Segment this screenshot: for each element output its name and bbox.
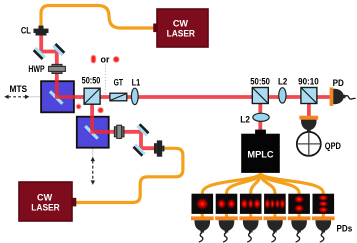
square 3: HG20 mode [240,194,262,214]
MPLC box [255,130,266,135]
fiber from CW laser 2 to collimator 2 [75,148,183,202]
red mode dot near BS1 down arm [98,108,103,113]
beam: 90:10 down to QPD [307,97,311,117]
mode blob (elongated, left of "or") [91,55,96,63]
mirror M4 (middle lower) [132,143,146,157]
output photodiode 3 [239,216,262,242]
QPD (quadrant photodiode) [297,132,321,156]
svg-text:QPD: QPD [325,141,341,151]
svg-text:LASER: LASER [167,28,196,39]
lens L1 [131,88,138,104]
svg-text:CL: CL [21,25,31,35]
MPLC output fibers fanning to 6 detectors [202,173,323,218]
red mode dot near BS1 left arm [76,104,81,109]
square 6: HG02 mode [313,194,335,214]
square 1: HG00 mode [192,194,214,214]
mirror inside stage box 1 [49,90,64,105]
beamsplitter BS1 50:50 [84,88,100,104]
fiber from CW laser 1 to collimator CL [41,6,155,29]
mirror M1 (top-left) [32,47,46,61]
lens L2 (vertical) [279,88,286,103]
stage box 2 [77,117,109,148]
photodiode PD (main output, right) [330,88,356,106]
beam: CL down, across mirrors, through HWP into stage 1, main line to PD [41,34,330,97]
square 2: HG10 mode [216,194,238,214]
dotted guide line from "or" to beam [104,65,106,94]
svg-text:90:10: 90:10 [298,77,319,87]
mirror M3 (middle upper) [136,123,150,137]
polarizer GT [110,93,127,101]
beam: BS2 down to MPLC [258,97,262,132]
photodiode above QPD [299,116,318,132]
CW laser 1 box (top) [153,24,158,33]
output photodiode 2 [215,216,238,242]
svg-text:PDs: PDs [337,224,353,234]
stage 2 translation arrow (dashed, double-headed, vertical) [91,157,95,185]
output photodiode 1 [191,216,214,242]
beamsplitter BS2 50:50 [252,88,268,104]
svg-text:LASER: LASER [31,202,60,213]
svg-text:50:50: 50:50 [82,76,101,86]
CW laser 2 box (bottom) [72,198,77,207]
svg-text:MPLC: MPLC [247,148,273,159]
mode pattern squares + detectors [192,194,335,214]
mode blob (round, right of "or") [113,57,119,63]
lens L2 (horizontal, above MPLC) [253,113,269,121]
svg-text:GT: GT [114,77,124,87]
mirror M2 (top-right) [52,43,66,57]
thin gray link MTS arrow to stage box 1 [29,96,41,98]
svg-text:L2: L2 [278,77,287,87]
collimator 2 (fiber coupler) [154,140,164,156]
half-wave plate 2 (lower path) [114,125,124,138]
svg-text:HWP: HWP [28,64,44,74]
svg-text:PD: PD [333,78,345,88]
svg-text:MTS: MTS [10,84,28,94]
output photodiode 6 [312,216,335,242]
svg-text:or: or [101,54,110,64]
stage box 1 (MTS) [41,81,74,112]
beamsplitter 90:10 [301,88,317,104]
square 5: HG01 mode [288,194,310,214]
output photodiode 4 [264,216,287,242]
svg-text:L1: L1 [132,77,141,87]
mirror inside stage box 2 [84,125,99,140]
square 4: HG30 mode [264,194,286,214]
thin gray link stage box 2 to arrow [92,148,94,157]
half-wave plate HWP [49,64,66,73]
svg-text:L2: L2 [240,115,250,125]
output photodiode 5 [288,216,311,242]
beam: BS1 down to stage 2, right to mirrors, down to collimator 2 [92,97,156,148]
MTS translation arrow (dashed, double-headed) [4,95,29,99]
svg-text:50:50: 50:50 [250,77,270,87]
collimator CL [34,26,49,36]
